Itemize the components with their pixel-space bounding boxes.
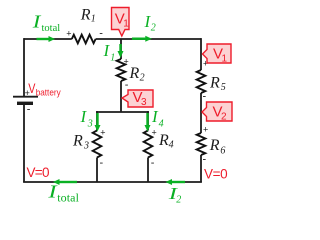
svg-text:total: total [42,23,61,34]
svg-text:battery: battery [36,87,61,97]
svg-text:-: - [203,91,207,103]
wire left lower: battery - terminal down to bottom-left corner [23,104,25,182]
svg-text:3: 3 [141,97,147,108]
svg-text:2: 2 [140,72,145,83]
svg-text:3: 3 [83,140,89,151]
wire top-left: battery to R1 [24,38,72,40]
wire bottom: bottom-left corner to bottom-right corner [23,181,202,183]
resistor R5 [197,58,226,102]
label I_total bottom [47,182,80,205]
resistor R1 [66,6,103,43]
svg-text:R: R [72,133,83,150]
wire right lower: R6 to bottom-right corner [200,155,202,182]
wire middle bar: node B horizontal rail [96,111,149,113]
wire branch: node A down to R2 [120,39,122,59]
current arrow I4 [145,113,151,132]
label I3 [80,107,93,130]
battery Vbattery [13,80,61,115]
callout V1 right (top of R5) [203,44,232,65]
current arrow I3 [95,113,101,132]
current arrow I2 top [132,36,152,42]
wire branch: R4 to bottom wire [147,158,149,183]
svg-text:3: 3 [87,119,93,130]
current arrow I_total bottom (pointing left) [53,179,77,185]
callout V2 right (below R5) [202,102,232,123]
svg-text:R: R [209,75,220,92]
wire branch: R3 to bottom wire [96,158,98,183]
wire left: top corner down to battery + terminal [23,38,25,96]
svg-text:1: 1 [91,13,96,24]
svg-text:I: I [80,107,88,126]
wire top-right: node A to top-right corner [121,38,201,40]
callout V3 (below R2) [122,89,153,108]
label I1 [103,41,116,64]
svg-text:-: - [100,157,104,169]
svg-text:-: - [125,79,129,91]
svg-text:+: + [124,56,129,66]
svg-text:1: 1 [222,54,228,65]
svg-text:2: 2 [176,195,181,206]
svg-text:-: - [99,28,103,40]
svg-text:-: - [151,157,155,169]
svg-text:V=0: V=0 [204,167,227,182]
svg-text:4: 4 [169,140,174,151]
resistor R6 [197,124,226,165]
label I_total top [32,12,61,34]
svg-text:I: I [32,12,42,32]
svg-text:2: 2 [151,23,156,34]
svg-text:+: + [203,124,208,134]
svg-text:+: + [100,128,105,138]
wire right upper: top-right corner to R5 [200,38,202,70]
callout V1 top (over node A) [112,8,130,37]
wire branch: R2 to node B on middle bar [120,81,122,112]
svg-text:R: R [209,137,220,154]
svg-text:5: 5 [221,82,226,93]
label I2 top [144,12,156,34]
svg-text:total: total [57,190,79,204]
svg-text:R: R [129,65,140,82]
svg-text:1: 1 [110,53,115,64]
svg-text:+: + [66,28,71,38]
wire branch: middle bar down to R4 [147,111,149,130]
current arrow I_total top [37,36,56,42]
svg-text:2: 2 [221,112,227,123]
svg-text:4: 4 [159,118,164,129]
svg-text:I: I [103,41,111,60]
label I2 bottom [167,184,181,206]
svg-text:6: 6 [220,146,225,157]
wire top-middle: R1 to node A [96,38,121,40]
svg-text:-: - [27,103,31,115]
current arrow I2 bottom (pointing left) [166,179,186,185]
svg-text:+: + [152,128,157,138]
svg-text:R: R [158,132,169,149]
svg-text:R: R [80,6,91,23]
resistor R2 [117,56,145,91]
wire branch: middle bar down to R3 [96,111,98,130]
svg-text:1: 1 [123,19,129,30]
wire right middle: R5 to R6 [200,93,202,133]
resistor R3 [72,128,105,169]
svg-text:V=0: V=0 [27,165,49,180]
svg-text:-: - [203,154,207,166]
resistor R4 [144,128,174,169]
current arrow I1 (node A down) [118,44,124,58]
label I4 [151,107,164,130]
